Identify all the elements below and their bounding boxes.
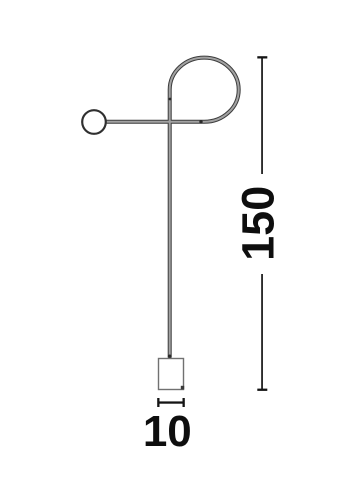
svg-text:10: 10 bbox=[143, 407, 192, 456]
base cylinder bbox=[159, 359, 184, 390]
lamp stem tube: light inner core bbox=[106, 58, 239, 358]
junction dot at pole bottom bbox=[168, 355, 172, 359]
junction dot on arm near loop bbox=[199, 120, 202, 123]
svg-text:150: 150 bbox=[233, 186, 284, 261]
height dimension line: lower segment bbox=[261, 274, 263, 390]
lamp stem tube: arm + loop + pole (outer dark outline) bbox=[106, 58, 239, 358]
junction dot on pole bbox=[169, 98, 172, 101]
height dimension: top tick bbox=[257, 56, 267, 58]
width dimension: right tick bbox=[183, 398, 185, 407]
dark mark at base bottom-right corner bbox=[181, 386, 184, 390]
height dimension line: upper segment bbox=[261, 57, 263, 174]
width dimension: left tick bbox=[157, 398, 159, 407]
width dimension line bbox=[158, 401, 183, 403]
height dimension: bottom tick bbox=[257, 389, 267, 391]
ball diffuser at end of arm bbox=[82, 110, 106, 134]
